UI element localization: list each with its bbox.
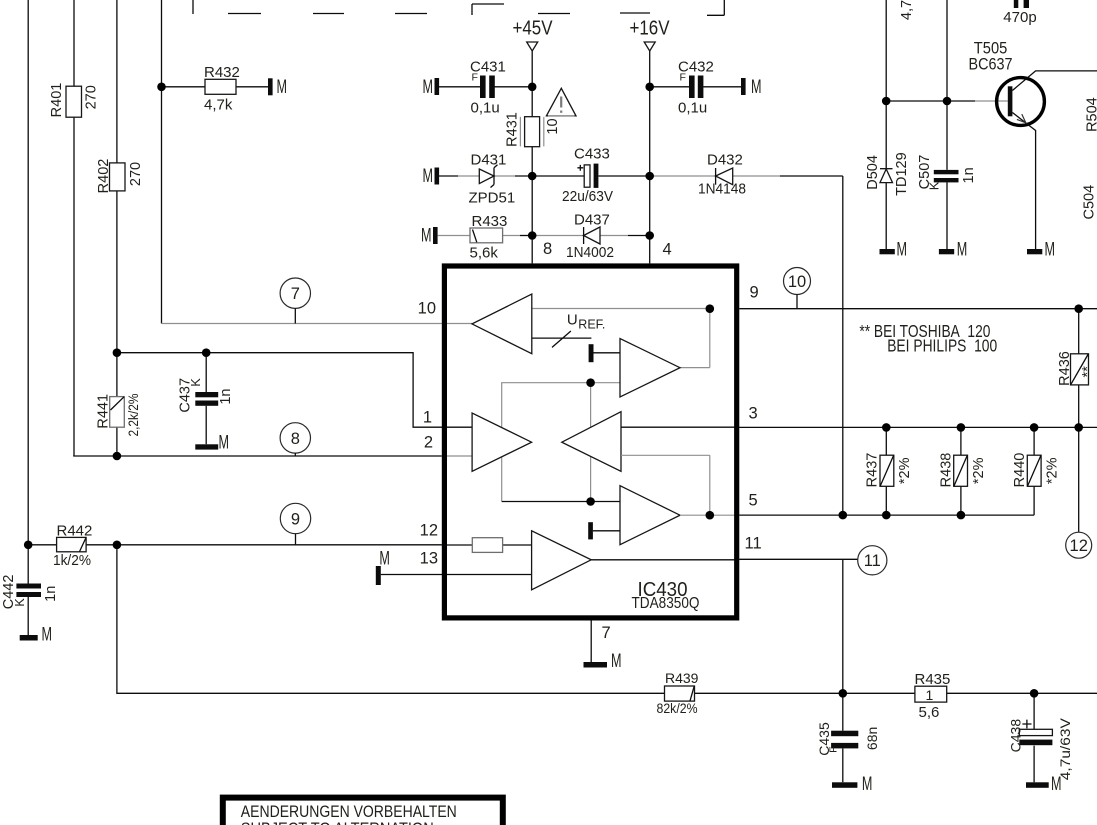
svg-text:*2%: *2% [971, 457, 987, 484]
svg-text:M: M [862, 774, 873, 795]
svg-text:SUBJECT TO ALTERNATION: SUBJECT TO ALTERNATION [241, 819, 434, 825]
svg-text:4,7: 4,7 [899, 0, 915, 20]
svg-text:1n: 1n [43, 586, 59, 602]
svg-text:TD129: TD129 [894, 152, 910, 196]
svg-text:R439: R439 [665, 670, 699, 686]
svg-text:F: F [828, 746, 840, 752]
svg-text:11: 11 [864, 552, 881, 570]
svg-text:12: 12 [420, 522, 438, 540]
svg-text:13: 13 [420, 550, 438, 568]
svg-text:F: F [472, 72, 478, 84]
svg-text:R432: R432 [204, 64, 240, 81]
svg-text:M: M [897, 239, 908, 260]
svg-text:M: M [423, 166, 434, 187]
svg-text:7: 7 [291, 285, 300, 303]
svg-text:10: 10 [545, 118, 561, 134]
svg-text:11: 11 [745, 534, 762, 552]
svg-text:5: 5 [749, 491, 758, 509]
svg-text:0,1u: 0,1u [471, 99, 500, 116]
svg-text:M: M [379, 549, 390, 570]
svg-text:R433: R433 [472, 213, 508, 230]
svg-text:+16V: +16V [630, 18, 671, 40]
svg-text:F: F [680, 72, 686, 84]
svg-text:2: 2 [424, 434, 433, 452]
svg-text:BEI PHILIPS 100: BEI PHILIPS 100 [887, 336, 997, 356]
svg-text:1n: 1n [218, 389, 234, 405]
svg-text:2,2k/2%: 2,2k/2% [125, 394, 141, 437]
svg-text:D431: D431 [471, 151, 507, 168]
svg-text:R441: R441 [96, 394, 112, 429]
svg-text:7: 7 [602, 624, 611, 642]
svg-text:K: K [13, 598, 27, 607]
svg-text:*2%: *2% [1045, 457, 1061, 484]
svg-text:C438: C438 [1008, 719, 1024, 753]
svg-text:1k/2%: 1k/2% [53, 552, 91, 569]
svg-text:D432: D432 [707, 151, 743, 168]
svg-text:R436: R436 [1057, 351, 1073, 386]
svg-text:8: 8 [291, 430, 300, 448]
svg-text:M: M [42, 624, 53, 645]
svg-text:**: ** [1080, 366, 1096, 378]
svg-text:TDA8350Q: TDA8350Q [632, 595, 700, 612]
svg-text:1N4148: 1N4148 [698, 180, 746, 197]
svg-text:D437: D437 [574, 212, 610, 229]
svg-text:1N4002: 1N4002 [566, 244, 614, 261]
svg-text:5,6: 5,6 [919, 704, 940, 721]
svg-text:R435: R435 [915, 671, 951, 688]
svg-text:4,7k: 4,7k [204, 96, 233, 113]
svg-text:+45V: +45V [513, 18, 554, 40]
svg-text:1n: 1n [961, 167, 977, 183]
svg-text:0,1u: 0,1u [678, 99, 707, 116]
svg-text:68n: 68n [864, 727, 880, 750]
svg-text:M: M [751, 77, 762, 98]
svg-text:10: 10 [418, 300, 436, 318]
svg-text:8: 8 [543, 240, 552, 258]
svg-text:K: K [928, 181, 942, 190]
svg-text:M: M [421, 226, 432, 247]
svg-text:R401: R401 [49, 83, 65, 118]
svg-text:9: 9 [750, 284, 759, 302]
svg-text:REF.: REF. [578, 318, 605, 332]
svg-text:K: K [189, 378, 203, 387]
svg-text:3: 3 [749, 404, 758, 422]
svg-text:R438: R438 [939, 453, 955, 488]
svg-text:10: 10 [788, 273, 806, 291]
svg-text:D504: D504 [865, 155, 881, 190]
svg-text:M: M [1045, 239, 1056, 260]
svg-text:M: M [219, 433, 230, 454]
svg-text:9: 9 [291, 510, 300, 528]
svg-text:270: 270 [84, 85, 100, 109]
svg-text:C504: C504 [1082, 185, 1097, 220]
svg-text:R504: R504 [1085, 97, 1097, 132]
svg-text:12: 12 [1070, 537, 1088, 555]
svg-text:1: 1 [423, 409, 432, 427]
svg-text:M: M [957, 239, 968, 260]
svg-text:470p: 470p [1003, 9, 1036, 26]
svg-text:BC637: BC637 [969, 56, 1013, 74]
svg-text:5,6k: 5,6k [470, 244, 499, 261]
svg-text:M: M [611, 651, 622, 672]
svg-text:82k/2%: 82k/2% [657, 700, 698, 716]
svg-text:22u/63V: 22u/63V [562, 188, 613, 205]
svg-text:R437: R437 [865, 453, 881, 488]
svg-text:U: U [567, 311, 578, 328]
svg-text:M: M [277, 77, 288, 98]
svg-text:R402: R402 [96, 159, 112, 194]
svg-text:ZPD51: ZPD51 [469, 189, 516, 206]
svg-text:270: 270 [128, 162, 144, 186]
svg-text:R440: R440 [1012, 453, 1028, 488]
svg-text:*2%: *2% [897, 457, 913, 484]
svg-text:4: 4 [663, 240, 672, 258]
svg-text:M: M [423, 77, 434, 98]
svg-text:4,7u/63V: 4,7u/63V [1057, 717, 1073, 780]
svg-text:1: 1 [926, 687, 934, 703]
svg-text:R442: R442 [57, 523, 93, 540]
svg-text:C433: C433 [574, 145, 610, 162]
svg-text:R431: R431 [505, 112, 521, 147]
